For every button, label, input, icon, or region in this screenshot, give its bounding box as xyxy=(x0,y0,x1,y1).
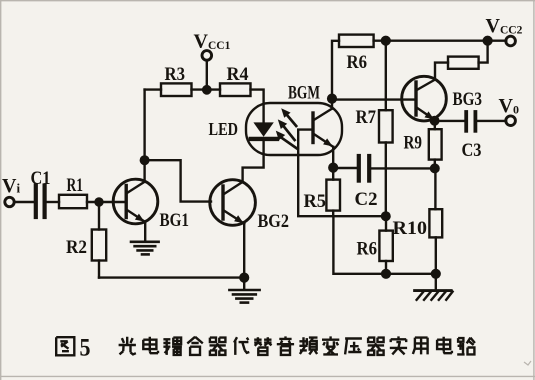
resistor R10 xyxy=(429,209,442,237)
resistor R6 bottom xyxy=(379,231,392,261)
svg-text:C1: C1 xyxy=(31,168,51,189)
wire R3 to R4 xyxy=(192,88,221,90)
resistor R2 xyxy=(92,230,106,261)
wire BG3 emitter to C3 xyxy=(435,120,465,122)
resistor R9 xyxy=(429,129,442,159)
node Vcc2 rail junction xyxy=(484,37,492,45)
node bottom rail / ground junction xyxy=(432,270,440,278)
wire Vi to C1 xyxy=(14,201,34,203)
wire BGM collector to BG3 base xyxy=(332,98,414,100)
node junction R1/R2/base xyxy=(96,199,103,206)
wire top rail R6 to Vcc2 xyxy=(374,40,507,42)
wire BGM collector up xyxy=(331,99,333,109)
light arrow 2 xyxy=(278,119,295,140)
ground right (hatched) xyxy=(415,291,453,300)
resistor R3 xyxy=(161,83,192,96)
svg-text:R6: R6 xyxy=(347,52,368,73)
wire R10 bottom xyxy=(435,237,437,273)
svg-text:VCC1: VCC1 xyxy=(194,31,231,53)
ground BG2 xyxy=(229,290,259,303)
node BG2 emitter / rail junction xyxy=(240,274,248,282)
wire emitter node to C2 xyxy=(333,167,357,169)
svg-text:R2: R2 xyxy=(66,237,87,258)
capacitor C1 xyxy=(36,186,45,218)
resistor R7 xyxy=(379,110,393,142)
node BG1 collector junction xyxy=(141,156,149,164)
svg-text:BG2: BG2 xyxy=(258,211,290,232)
caption 图5 光电耦合器代替音频变压器实用电路 (drawn strokes) xyxy=(56,336,475,355)
node R7 / bias rail junction xyxy=(382,212,390,220)
wire bottom rail to BG2 emitter xyxy=(99,276,244,278)
svg-text:R7: R7 xyxy=(356,107,377,128)
wire emitter to R9 xyxy=(434,121,436,130)
svg-text:R6: R6 xyxy=(357,239,378,260)
node BG3 emitter junction xyxy=(431,117,439,125)
wire R1 to BG1 base xyxy=(87,201,125,203)
svg-text:V0: V0 xyxy=(499,95,519,117)
wire Vcc1 lead xyxy=(206,60,208,89)
wire R2 bottom down xyxy=(98,261,100,278)
wire C1 to R1 xyxy=(47,201,59,203)
wire node to R10 xyxy=(434,168,436,209)
optocoupler BGM package xyxy=(246,103,342,155)
node BGM collector junction xyxy=(328,95,336,103)
wire BG1 collector up xyxy=(143,90,145,182)
svg-text:BGM: BGM xyxy=(288,83,320,104)
wire R6 bottom lead xyxy=(385,261,387,274)
ground BG1 xyxy=(131,242,159,255)
wire emitter node to R5 xyxy=(332,168,334,180)
svg-text:5: 5 xyxy=(80,335,91,362)
wire node to R6 bottom xyxy=(385,216,387,230)
wire collector node to BG2 base xyxy=(145,160,211,201)
resistor R1 xyxy=(59,195,87,208)
svg-text:C2: C2 xyxy=(355,189,378,210)
capacitor C2 xyxy=(359,156,369,181)
wire LED cathode to BG2 collector xyxy=(243,141,264,180)
LED diode of BGM xyxy=(251,122,277,138)
wire R6 left lead down to collector node xyxy=(332,41,339,99)
wire R7 top lead xyxy=(385,41,387,111)
svg-text:LED: LED xyxy=(209,119,239,139)
wire BGM base lead xyxy=(298,130,386,217)
transistor BG1 xyxy=(113,179,158,224)
wire BG2 emitter down xyxy=(243,224,245,278)
svg-text:Vi: Vi xyxy=(2,175,20,197)
transistor BG2 xyxy=(210,180,256,226)
wire BG1 emitter to ground xyxy=(144,222,146,241)
svg-text:R10: R10 xyxy=(393,218,428,239)
svg-text:R4: R4 xyxy=(227,64,249,85)
svg-text:BG3: BG3 xyxy=(453,89,483,110)
node top rail / R7 xyxy=(382,37,390,45)
resistor R6 top xyxy=(339,35,374,47)
svg-text:R5: R5 xyxy=(304,191,327,212)
node BGM emitter junction xyxy=(329,164,337,172)
wire load resistor to Vcc2 rail xyxy=(479,41,488,63)
resistor collector load (unlabeled) xyxy=(448,57,479,69)
light arrow 1 xyxy=(281,108,296,126)
svg-text:VCC2: VCC2 xyxy=(486,15,523,37)
node R9/R10/C2 junction xyxy=(431,165,439,173)
node Vcc1 junction xyxy=(203,86,210,93)
wire R7 bottom lead xyxy=(385,143,387,217)
node V0 output terminal xyxy=(506,116,516,126)
capacitor C3 xyxy=(466,112,475,131)
wire BG3 collector up xyxy=(435,63,448,80)
transistor BG3 xyxy=(402,76,447,121)
svg-text:R1: R1 xyxy=(67,175,84,196)
wire bias rail down-right xyxy=(333,216,435,274)
node R6 / bottom rail xyxy=(382,270,390,278)
light arrow 3 xyxy=(276,131,298,149)
wire C3 to V0 terminal xyxy=(477,120,506,122)
wire junction to ground stem xyxy=(243,278,245,290)
phototransistor of BGM xyxy=(313,109,333,147)
svg-text:BG1: BG1 xyxy=(160,210,190,231)
svg-text:C3: C3 xyxy=(462,140,482,161)
resistor R4 xyxy=(220,83,251,96)
wire R9 bottom xyxy=(434,160,436,169)
node Vcc2 terminal xyxy=(506,36,516,46)
wire ground stem xyxy=(435,274,437,290)
node Vcc1 terminal xyxy=(202,51,212,61)
wire BGM emitter down xyxy=(332,147,334,168)
wire node to R2 xyxy=(98,205,100,230)
svg-text:R3: R3 xyxy=(165,64,186,85)
wire C2 to R9/R10 node xyxy=(371,167,434,169)
resistor R5 xyxy=(326,180,340,211)
svg-text:R9: R9 xyxy=(404,133,423,154)
node Vi input terminal xyxy=(5,197,14,206)
wire R4 to LED anode xyxy=(251,90,264,123)
wire top corner to R3 xyxy=(145,88,161,90)
wire R5 bottom xyxy=(332,211,334,217)
